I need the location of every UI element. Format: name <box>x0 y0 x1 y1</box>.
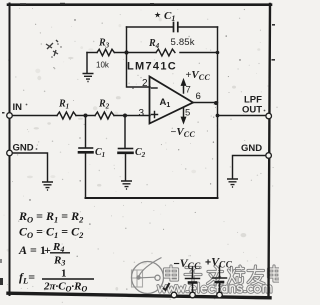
svg-text:★: ★ <box>154 11 161 20</box>
svg-text:GND: GND <box>13 143 34 154</box>
svg-text:GND: GND <box>241 143 262 154</box>
svg-text:6: 6 <box>196 91 201 102</box>
svg-text:10k: 10k <box>96 61 110 70</box>
svg-text:7: 7 <box>186 85 191 96</box>
svg-text:2π·CO·RO: 2π·CO·RO <box>43 281 87 294</box>
svg-text:IN: IN <box>13 102 23 113</box>
svg-text:5: 5 <box>185 108 190 119</box>
svg-text:LM741C: LM741C <box>127 61 177 73</box>
svg-text:A = 1: A = 1 <box>18 243 46 257</box>
svg-text:+: + <box>44 243 51 257</box>
svg-text:5.85k: 5.85k <box>171 37 195 48</box>
svg-text:1: 1 <box>61 268 67 280</box>
svg-text:2: 2 <box>142 78 148 89</box>
svg-text:OUT: OUT <box>242 105 262 116</box>
svg-text:3: 3 <box>139 108 145 119</box>
